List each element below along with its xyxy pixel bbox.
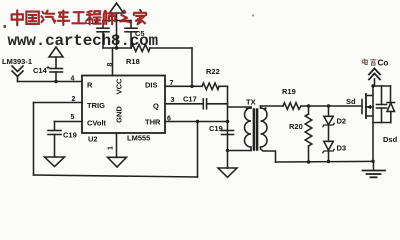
- svg-text:Sd: Sd: [346, 97, 356, 106]
- svg-text:R: R: [87, 81, 93, 90]
- svg-text:C19: C19: [209, 124, 223, 133]
- svg-text:TX: TX: [246, 98, 256, 107]
- svg-text:D3: D3: [337, 144, 347, 153]
- svg-text:Co: Co: [378, 59, 389, 68]
- svg-text:R22: R22: [206, 67, 220, 76]
- svg-text:D2: D2: [337, 117, 347, 126]
- svg-text:LM393-1: LM393-1: [2, 57, 32, 66]
- svg-text:LM555: LM555: [127, 134, 150, 143]
- svg-text:3: 3: [171, 97, 175, 104]
- svg-text:C19: C19: [63, 131, 77, 140]
- svg-text:VCC: VCC: [115, 78, 124, 94]
- svg-text:www.cartech8.com: www.cartech8.com: [8, 32, 159, 50]
- svg-text:Dsd: Dsd: [383, 135, 398, 144]
- svg-text:1: 1: [108, 146, 115, 150]
- svg-text:5: 5: [71, 114, 75, 121]
- svg-text:U2: U2: [88, 135, 98, 144]
- svg-text:R19: R19: [282, 87, 296, 96]
- svg-text:R18: R18: [126, 57, 140, 66]
- svg-text:7: 7: [170, 80, 174, 87]
- svg-text:2: 2: [72, 96, 76, 103]
- svg-text:4: 4: [71, 76, 75, 83]
- svg-text:CVolt: CVolt: [87, 119, 107, 128]
- svg-text:C17: C17: [183, 95, 197, 104]
- svg-text:8: 8: [107, 63, 114, 67]
- svg-text:+: +: [46, 65, 50, 72]
- svg-text:TRIG: TRIG: [87, 101, 105, 110]
- svg-text:THR: THR: [145, 118, 161, 127]
- svg-text:GND: GND: [115, 106, 124, 123]
- svg-text:Q: Q: [153, 102, 159, 111]
- svg-text:6: 6: [167, 116, 171, 123]
- svg-text:R20: R20: [289, 122, 303, 131]
- svg-text:DIS: DIS: [145, 81, 158, 90]
